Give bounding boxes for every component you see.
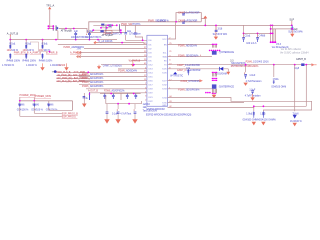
svg-text:1uF: 1uF: [74, 30, 79, 33]
blue bar x=89.5: [89, 92, 91, 100]
MCU U3 left pin numbers: [144, 43, 147, 102]
wire bottom-left rail: [20, 101, 73, 111]
ground arrow row pin7: [98, 65, 100, 67]
svg-text:(*)INTERFACE: (*)INTERFACE: [219, 51, 235, 54]
ground arrow left A: [42, 63, 44, 67]
wire right pin VCC up to cap branch: [168, 22, 176, 39]
ground arrow under C3: [291, 30, 293, 34]
svg-text:VCC: VCC: [162, 39, 167, 41]
capacitor C7 column (x=75.7): [71, 30, 87, 39]
svg-text:A_OUT_B: A_OUT_B: [7, 32, 19, 35]
wire W3 from pin 42: [168, 65, 307, 108]
vertical from dot 273.8 down: [273, 65, 275, 77]
svg-text:(POWER_MON: (POWER_MON: [34, 95, 51, 98]
svg-text:SDA: SDA: [162, 56, 167, 59]
ground arrow col2: [261, 122, 265, 126]
ground arrow col3: [293, 123, 297, 127]
junction on J1 output wire: [65, 28, 67, 30]
wire right row 56.6: [168, 56, 212, 58]
capacitor CA: [103, 94, 106, 100]
svg-text:1.0/100: 1.0/100: [58, 65, 66, 67]
wire row pin10: [79, 76, 147, 78]
resistor column R3: [39, 40, 62, 68]
junction J1 pins: [48, 25, 50, 27]
wire J1 stem: [49, 26, 51, 28]
wire rail P (switch input, top): [89, 22, 202, 33]
vertical V1 from GPMT to col3: [294, 65, 296, 112]
wire to power symbol of cap branch: [201, 19, 205, 26]
svg-text:SLP/3V3 W%: SLP/3V3 W%: [213, 33, 228, 36]
capacitor C2 branch at x=216: [215, 25, 217, 30]
capacitor C6 column: [257, 33, 259, 37]
wire J1 pin 1: [48, 25, 53, 27]
svg-text:1.0/100 %: 1.0/100 %: [26, 64, 38, 67]
connector J3 top pins: [212, 44, 216, 48]
capacitor C5 column: [243, 33, 245, 37]
svg-text:16.0/100 %: 16.0/100 %: [290, 121, 302, 123]
svg-text:1uF/16: 1uF/16: [143, 104, 151, 106]
connector J4 body: [212, 84, 217, 88]
wire row pin14: [90, 92, 147, 94]
power symbol TP1_A arrow: [48, 7, 51, 10]
wire from TP1_A down to connector J1: [49, 9, 51, 26]
MCU U3 right pin numbers: [169, 38, 172, 109]
ground arrow C12: [252, 94, 254, 97]
svg-text:0.1uF: 0.1uF: [112, 113, 118, 115]
wire W2 from pin 43: [168, 102, 245, 104]
capacitor column C11 (tantalum): [245, 65, 247, 73]
connector J4 pad rows: [212, 78, 213, 79]
ground arrow C11: [243, 83, 247, 86]
resistor column R2: [23, 40, 42, 68]
capacitor CC: [126, 94, 129, 100]
antenna flag row 72.5: [173, 72, 177, 74]
connector J1 body bars: [53, 25, 56, 31]
capacitor C10 branch: [135, 25, 142, 40]
IC U2 blue pads: [100, 30, 103, 32]
wire row pin5: [77, 56, 147, 58]
wire bundle down to connector J2: [271, 25, 276, 42]
ground arrow D1: [226, 72, 230, 75]
arrow flag end row 80.6: [200, 79, 203, 82]
svg-text:G54/100 OHM%: G54/100 OHM%: [259, 120, 276, 122]
net flag arrow left (row 2): [94, 41, 98, 44]
junction at C1 branch: [175, 21, 177, 23]
wire corner near x=38.5: [30, 42, 50, 52]
vertical x=121 under MCU: [120, 93, 122, 100]
junction rail Q at 205: [204, 25, 206, 27]
wire right row 68.8 to LED: [168, 68, 220, 70]
connector J3 body: [212, 51, 217, 55]
label stems: [20, 97, 35, 101]
wire row pin13: [86, 88, 147, 90]
alias row 1: [57, 71, 91, 73]
capacitor C8 column (x=89.4): [85, 30, 101, 39]
zener glyph near x=84.3: [83, 97, 86, 98]
MCU module U3 box: [147, 35, 168, 106]
svg-text:1.78/100 %: 1.78/100 %: [2, 64, 15, 67]
wire J1 pin 2: [48, 28, 53, 30]
svg-text:TP1_A: TP1_A: [46, 4, 54, 8]
capacitor C3 at x=292: [291, 25, 294, 29]
svg-text:G54/100 OHM%: G54/100 OHM%: [243, 120, 260, 122]
wire row pin7: [101, 64, 147, 66]
svg-text:G54/100 OHM: G54/100 OHM: [271, 87, 286, 89]
net stub ATTiny top: [56, 31, 58, 40]
svg-text:ESP_PROG〉: ESP_PROG〉: [62, 115, 78, 119]
svg-text:MUT/DUN/COPWRGND%: MUT/DUN/COPWRGND%: [231, 66, 259, 68]
junction rail Q right: [270, 25, 272, 27]
svg-text:R4W6 100%: R4W6 100%: [23, 59, 37, 62]
SLP stem: [291, 21, 293, 26]
svg-text:100/16V/X5R %: 100/16V/X5R %: [85, 37, 101, 39]
capacitor CE column: [106, 104, 108, 112]
wires inside switch cluster: [93, 25, 121, 30]
svg-text:(*)INTERFACE: (*)INTERFACE: [219, 85, 235, 88]
alias row 4: [57, 80, 91, 82]
svg-text:POWER_MON: POWER_MON: [20, 94, 36, 97]
wire row pin6: [131, 60, 147, 62]
wire rail y=28.9: [271, 28, 293, 30]
caps row under MCU left (4 caps): [100, 93, 141, 95]
wire right row 64.7 GPMT long: [168, 64, 312, 66]
arrow end of GPMT wire: [311, 63, 314, 66]
junctions GPMT wire: [273, 64, 275, 66]
svg-text:COO/OHM: COO/OHM: [216, 74, 227, 76]
alias row 2: [57, 74, 91, 76]
svg-text:P2W6_AD/GPIO5%: P2W6_AD/GPIO5%: [82, 85, 104, 88]
junctions left rail: [9, 39, 11, 41]
svg-text:C4W7_U7/100/16: C4W7_U7/100/16: [103, 64, 123, 67]
junction pin1 row: [142, 39, 144, 41]
capacitor CG column: [134, 104, 136, 109]
svg-text:Ver 01 B/C collector 128x64: Ver 01 B/C collector 128x64: [280, 51, 309, 54]
transistor Q1 glyph: [101, 24, 104, 27]
capacitor C4W8 glyph: [182, 22, 185, 23]
wire row pin2: [58, 43, 147, 45]
chevron in row pin5: [77, 55, 81, 58]
wire row pin9: [79, 72, 147, 74]
diode D1 (LED): [220, 67, 224, 71]
svg-text:A-OUT_B: A-OUT_B: [88, 89, 98, 92]
capacitor CF column: [117, 104, 119, 109]
bottom middle rail: [106, 96, 142, 104]
svg-text:W-TRUST/C: W-TRUST/C: [170, 76, 183, 78]
svg-text:P2W6_1/2/3/4/5 10/16: P2W6_1/2/3/4/5 10/16: [246, 61, 270, 63]
svg-text:P2W6_SD/GPIO6%: P2W6_SD/GPIO6%: [178, 89, 200, 92]
svg-text:C_uF 100/16: C_uF 100/16: [99, 40, 113, 43]
svg-text:C4W6: C4W6: [259, 34, 266, 37]
mid-right wire y=33.4: [244, 25, 273, 33]
transistor Q2 glyph: [109, 24, 112, 26]
divider column D2: [31, 101, 62, 114]
flag under B_OUT_B: [9, 35, 11, 37]
wire row pin12: [79, 84, 147, 86]
wire left rail y=39.6: [10, 37, 117, 40]
svg-text:GND: GND: [162, 105, 167, 107]
svg-text:P2W6_SD/SDIN/%: P2W6_SD/SDIN/%: [178, 54, 199, 57]
svg-text:0.1uF/50/X5R: 0.1uF/50/X5R: [184, 11, 200, 14]
svg-text:R4W6 100%: R4W6 100%: [7, 59, 21, 62]
capacitor CD: [134, 94, 137, 100]
capacitor C2 glyph: [215, 30, 218, 31]
svg-text:P2W6_AD/GPIO2%: P2W6_AD/GPIO2%: [104, 89, 124, 92]
wire from D1 to ground: [223, 69, 228, 72]
svg-text:1.0uF: 1.0uF: [249, 75, 255, 77]
testpoint TP blue dot: [54, 70, 57, 73]
svg-text:1.0k&: 1.0k&: [246, 113, 252, 115]
svg-text:GPMT_B: GPMT_B: [296, 58, 306, 61]
svg-text:C1k&: C1k&: [244, 34, 250, 37]
MCU U3 left pin names: [148, 40, 153, 103]
connector J3 pad row: [209, 50, 211, 52]
transistor Q1 cluster bars: [106, 24, 120, 31]
power symbol near C1 branch: [204, 16, 207, 18]
ground arrow col1: [252, 122, 256, 126]
svg-text:4.7uF/Tant: 4.7uF/Tant: [120, 112, 131, 115]
svg-text:3/16: 3/16: [218, 28, 223, 31]
capacitor C1 branch top wire: [176, 13, 201, 22]
alias row 3: [57, 77, 91, 79]
svg-text:C4W7_0.1uF/50/X5R: C4W7_0.1uF/50/X5R: [177, 64, 200, 67]
wire right row 44.4 to connector J3: [168, 43, 214, 45]
connector J4 top ticks: [212, 72, 216, 77]
svg-text:1uF/50/X5R: 1uF/50/X5R: [184, 19, 198, 22]
svg-text:P2W6_AD/RXD0%: P2W6_AD/RXD0%: [64, 46, 85, 49]
svg-text:P2W6_AD/SDA%: P2W6_AD/SDA%: [178, 44, 198, 47]
wire row pin3: [84, 47, 147, 49]
svg-text:C 10/16 %: C 10/16 %: [158, 19, 170, 22]
junction switch bottom: [120, 32, 122, 34]
MCU U3 right pin names: [162, 39, 167, 107]
IC U2 red box (small regulator): [105, 30, 112, 33]
wire from J1 to power switch: [59, 29, 89, 33]
wire right row 88.8 to connector J4: [168, 88, 212, 90]
ground arrow x=84.3: [82, 104, 87, 108]
svg-text:4.7uF/Tantalum: 4.7uF/Tantalum: [246, 80, 262, 83]
svg-text:ATTiny&B: ATTiny&B: [61, 30, 72, 33]
svg-text:V3.3: V3.3: [276, 43, 282, 46]
wire row pin4: [80, 52, 147, 54]
chevron in row pin4: [77, 51, 81, 54]
svg-text:ESP32-WROOM-32D(M113DH3200PH3Q: ESP32-WROOM-32D(M113DH3200PH3Q0): [146, 115, 192, 117]
connector J2 pins: [270, 41, 272, 43]
ground arrow row pin6: [132, 61, 134, 64]
wire row pin1 left (from cap branch): [126, 25, 147, 40]
ground arrow under C2: [215, 32, 217, 37]
connector J1 switch glyph: [57, 26, 59, 30]
svg-text:Ver 01 B/C collector: Ver 01 B/C collector: [281, 48, 302, 51]
svg-text:C4W2_U7/100/16: C4W2_U7/100/16: [180, 80, 200, 83]
wire row pin8: [118, 68, 147, 70]
svg-text:1.0k&: 1.0k&: [87, 30, 94, 33]
wire right row 80.6: [168, 80, 200, 82]
resistor column R1: [2, 40, 29, 68]
ferrite bead FB1 on GPMT wire: [301, 63, 304, 66]
svg-text:100 mA h: 100 mA h: [246, 42, 257, 45]
svg-text:1k&: 1k&: [143, 107, 147, 109]
svg-text:Tant/16V/20%: Tant/16V/20%: [143, 110, 157, 113]
svg-text:R4W6 100%: R4W6 100%: [39, 59, 53, 62]
wire W1 from pin 44: [168, 98, 312, 112]
wire rail Q (3V3 rail): [121, 24, 292, 26]
divider column D1: [17, 101, 62, 117]
wire switch bottom: [89, 31, 124, 33]
svg-text:G54/100 %: G54/100 %: [17, 109, 29, 111]
divider column D3: [46, 101, 73, 112]
svg-text:P2W6_AD/SDA%: P2W6_AD/SDA%: [118, 69, 138, 72]
capacitor C4W7 glyph: [182, 14, 185, 15]
connector J4 bottom pads: [205, 92, 207, 94]
column x=84.3 gnd: [83, 93, 85, 104]
svg-text:W_PWR_B: W_PWR_B: [129, 60, 141, 62]
wire row pin11: [79, 80, 147, 82]
svg-text:SLP/3V3 W%: SLP/3V3 W%: [288, 31, 303, 34]
wire row 2 stub: [98, 43, 145, 45]
svg-text:G54/100 %: G54/100 %: [31, 109, 43, 111]
capacitor CB: [112, 94, 115, 100]
svg-text:ATTiny&4?: ATTiny&4?: [102, 34, 114, 37]
connector J4 bottom ticks: [212, 89, 216, 94]
ground arrow left B: [66, 63, 68, 67]
resistor col1 bottom right: [253, 106, 255, 111]
svg-text:PWR_SWITCH%: PWR_SWITCH%: [121, 23, 141, 26]
junctions switch cluster: [107, 24, 109, 26]
ground arrow J4: [213, 93, 215, 94]
